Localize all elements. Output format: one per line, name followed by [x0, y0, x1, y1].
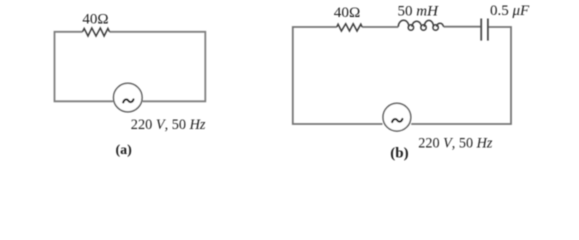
svg-text:50 mH: 50 mH	[398, 3, 440, 19]
svg-text:220 V, 50 Hz: 220 V, 50 Hz	[131, 117, 206, 133]
svg-text:40Ω: 40Ω	[82, 12, 108, 28]
svg-text:0.5 μF: 0.5 μF	[490, 3, 530, 19]
svg-text:(b): (b)	[390, 145, 408, 161]
svg-text:220 V, 50 Hz: 220 V, 50 Hz	[418, 136, 493, 152]
svg-text:(a): (a)	[116, 143, 133, 158]
svg-text:40Ω: 40Ω	[334, 5, 361, 21]
